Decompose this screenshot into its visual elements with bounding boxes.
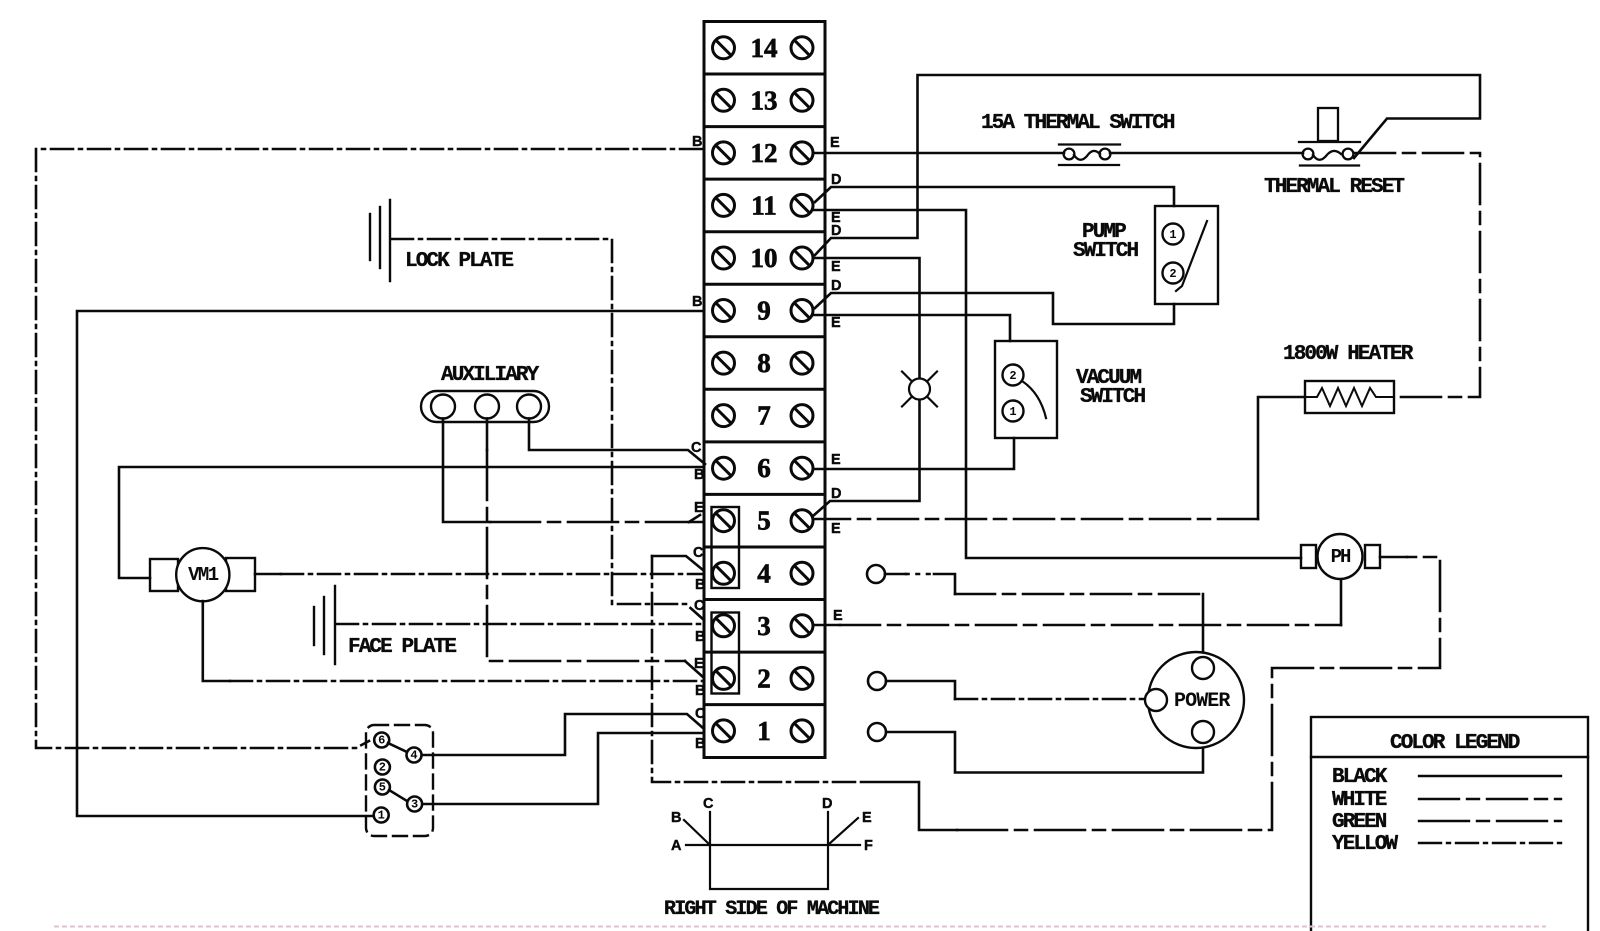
- svg-text:E: E: [862, 810, 872, 826]
- svg-text:C: C: [691, 440, 702, 456]
- svg-text:8: 8: [757, 348, 771, 378]
- wire black: auxiliary right pin to terminal 6 C: [529, 419, 705, 465]
- terminal 13 row: [713, 89, 735, 111]
- svg-text:B: B: [692, 134, 702, 150]
- svg-text:B: B: [695, 683, 705, 699]
- indicator lamp: [902, 372, 937, 407]
- svg-text:WHITE: WHITE: [1332, 789, 1387, 812]
- svg-text:4: 4: [757, 558, 771, 588]
- svg-text:FACE PLATE: FACE PLATE: [348, 636, 456, 659]
- terminal 8 row: [713, 352, 735, 374]
- terminal 2 row: [713, 667, 735, 689]
- photocell PH: [1301, 534, 1380, 579]
- svg-text:E: E: [694, 656, 704, 672]
- svg-text:1: 1: [757, 716, 771, 746]
- svg-text:E: E: [833, 608, 843, 624]
- motor VM1: [150, 548, 255, 601]
- wire black: terminal 9 E to vacuum switch top: [813, 315, 1010, 341]
- terminal 6 row: [713, 457, 735, 479]
- wire black: terminal 6 E to vacuum switch bottom: [813, 438, 1014, 469]
- svg-text:D: D: [831, 486, 841, 502]
- svg-text:SWITCH: SWITCH: [1080, 386, 1146, 409]
- svg-text:2: 2: [379, 761, 386, 775]
- POWER receptacle: [1145, 652, 1244, 748]
- wire black: open terminal to POWER bottom: [886, 732, 1203, 773]
- svg-text:14: 14: [751, 33, 778, 63]
- svg-text:YELLOW: YELLOW: [1332, 833, 1399, 856]
- connector pin 6: [374, 733, 389, 748]
- svg-text:4: 4: [410, 749, 417, 763]
- svg-text:E: E: [831, 452, 841, 468]
- wire black: terminal 11 E to photocell PH left: [813, 210, 1301, 558]
- wire white: terminal 3 E right to PH bottom: [813, 624, 840, 627]
- svg-text:LOCK PLATE: LOCK PLATE: [405, 250, 513, 273]
- svg-text:C: C: [695, 706, 706, 722]
- open terminal near 1: [868, 723, 886, 741]
- svg-text:13: 13: [751, 85, 778, 115]
- svg-text:E: E: [831, 210, 841, 226]
- svg-text:1800W HEATER: 1800W HEATER: [1283, 343, 1414, 366]
- color legend box: [1311, 717, 1588, 931]
- svg-text:E: E: [831, 315, 841, 331]
- svg-text:6: 6: [378, 734, 385, 748]
- svg-text:2: 2: [757, 663, 771, 693]
- scan artifact bottom edge: [55, 926, 1545, 928]
- svg-text:2: 2: [1169, 267, 1176, 281]
- lock plate ground symbol: [370, 200, 390, 281]
- svg-text:C: C: [694, 598, 705, 614]
- terminal 10 row: [713, 247, 735, 269]
- svg-text:B: B: [695, 736, 705, 752]
- jumper bar terminals 5-4: [712, 507, 740, 588]
- svg-text:PH: PH: [1331, 546, 1351, 568]
- svg-text:E: E: [831, 521, 841, 537]
- svg-text:1: 1: [378, 809, 385, 823]
- wire black+white: heater left down to terminal 5 E: [1258, 397, 1305, 519]
- connector pin 2: [375, 760, 390, 775]
- wire yellow: VM1 bottom to terminal 2 B: [203, 601, 230, 681]
- svg-text:VM1: VM1: [188, 564, 219, 586]
- svg-text:D: D: [831, 278, 841, 294]
- face plate ground symbol: [314, 586, 335, 664]
- wire pin6 to pin4: [388, 743, 407, 752]
- svg-text:B: B: [671, 810, 681, 826]
- svg-text:6: 6: [757, 453, 771, 483]
- svg-text:SWITCH: SWITCH: [1073, 240, 1139, 263]
- wire black: connector pin 3 to terminal 1 B: [423, 733, 704, 804]
- svg-text:2: 2: [1009, 369, 1016, 383]
- connector pin 4: [407, 748, 422, 763]
- svg-text:B: B: [695, 629, 705, 645]
- svg-text:5: 5: [379, 781, 386, 795]
- wire black: thermal switch to thermal reset: [1110, 152, 1303, 155]
- svg-text:C: C: [693, 545, 704, 561]
- svg-text:E: E: [694, 500, 704, 516]
- terminal 3 row: [713, 615, 735, 637]
- wire pin5 to pin3: [389, 790, 407, 801]
- svg-text:GREEN: GREEN: [1332, 811, 1387, 834]
- wire black: terminal 12 E to 15A thermal switch: [813, 152, 1064, 155]
- terminal 11 row: [713, 194, 735, 216]
- svg-text:COLOR LEGEND: COLOR LEGEND: [1390, 732, 1520, 755]
- svg-text:B: B: [694, 467, 704, 483]
- svg-text:E: E: [830, 135, 840, 151]
- wire black: terminal 5 D to lamp to terminal 10 E: [813, 258, 920, 516]
- wire black: terminal 6 B to VM1 left: [119, 467, 704, 578]
- wire yellow border: terminal 12 B to connector pin 6: [36, 149, 702, 748]
- wire yellow: VM1 right to terminal 4 B: [255, 573, 281, 576]
- jumper bar terminals 3-2: [712, 613, 740, 694]
- wire black: terminal 9 B left down to connector pin 1: [77, 311, 704, 816]
- svg-text:A: A: [671, 838, 682, 854]
- open terminal near 4: [867, 565, 885, 583]
- wire yellow: face plate to terminal 3 B: [336, 623, 704, 626]
- svg-text:BLACK: BLACK: [1332, 766, 1388, 789]
- connector J1: [366, 725, 433, 836]
- terminal 1 row: [713, 720, 735, 742]
- wire white: thermal reset right to heater right: [1355, 153, 1480, 397]
- terminal 7 row: [713, 405, 735, 427]
- wire black: terminal 9 D to pump switch bottom: [815, 293, 1174, 324]
- terminal 5 row: [713, 510, 735, 532]
- svg-text:THERMAL RESET: THERMAL RESET: [1264, 176, 1404, 199]
- wire green: auxiliary left pin to terminal 5 E: [443, 419, 490, 523]
- connector pin 5: [375, 780, 390, 795]
- wire yellow: open terminal to POWER left: [886, 681, 955, 699]
- wire yellow bus: terminal 4 C down left side to POWER/PH chain: [652, 556, 703, 570]
- svg-text:POWER: POWER: [1174, 690, 1230, 713]
- svg-text:E: E: [831, 259, 841, 275]
- svg-text:1: 1: [1009, 405, 1016, 419]
- connector pin 3: [407, 797, 422, 812]
- svg-text:C: C: [703, 796, 714, 812]
- wire black: terminal 11 D to pump switch top: [815, 187, 1174, 206]
- svg-text:D: D: [831, 172, 841, 188]
- terminal 9 row: [713, 300, 735, 322]
- wire yellow: lock plate to terminal 3 C: [391, 239, 704, 620]
- terminal block TB1: [704, 22, 825, 758]
- terminal 12 row: [713, 142, 735, 164]
- svg-text:7: 7: [757, 401, 771, 431]
- svg-text:10: 10: [751, 243, 778, 273]
- svg-text:F: F: [864, 838, 873, 854]
- svg-text:B: B: [695, 577, 705, 593]
- terminal 4 row: [713, 562, 735, 584]
- wire black: terminal 10 D up over top to thermal reset lever: [815, 75, 1480, 255]
- connector pin 1: [374, 808, 389, 823]
- svg-text:3: 3: [411, 798, 418, 812]
- open terminal near 2: [868, 672, 886, 690]
- wire black: connector pin 4 to terminal 1 C: [422, 714, 703, 755]
- svg-text:RIGHT SIDE OF MACHINE: RIGHT SIDE OF MACHINE: [664, 898, 880, 921]
- svg-text:D: D: [822, 796, 832, 812]
- terminal 14 row: [713, 37, 735, 59]
- svg-text:AUXILIARY: AUXILIARY: [441, 364, 540, 387]
- svg-text:1: 1: [1169, 228, 1176, 242]
- svg-text:11: 11: [751, 190, 777, 220]
- svg-text:12: 12: [751, 138, 778, 168]
- svg-text:5: 5: [757, 506, 771, 536]
- svg-text:9: 9: [757, 296, 771, 326]
- wire green: auxiliary middle pin to terminal 2 E: [486, 419, 489, 451]
- svg-text:3: 3: [757, 611, 771, 641]
- machine side bracket: [684, 812, 860, 889]
- svg-text:15A THERMAL SWITCH: 15A THERMAL SWITCH: [981, 112, 1175, 135]
- svg-text:B: B: [692, 294, 702, 310]
- wire white: open terminal to POWER top: [885, 573, 906, 576]
